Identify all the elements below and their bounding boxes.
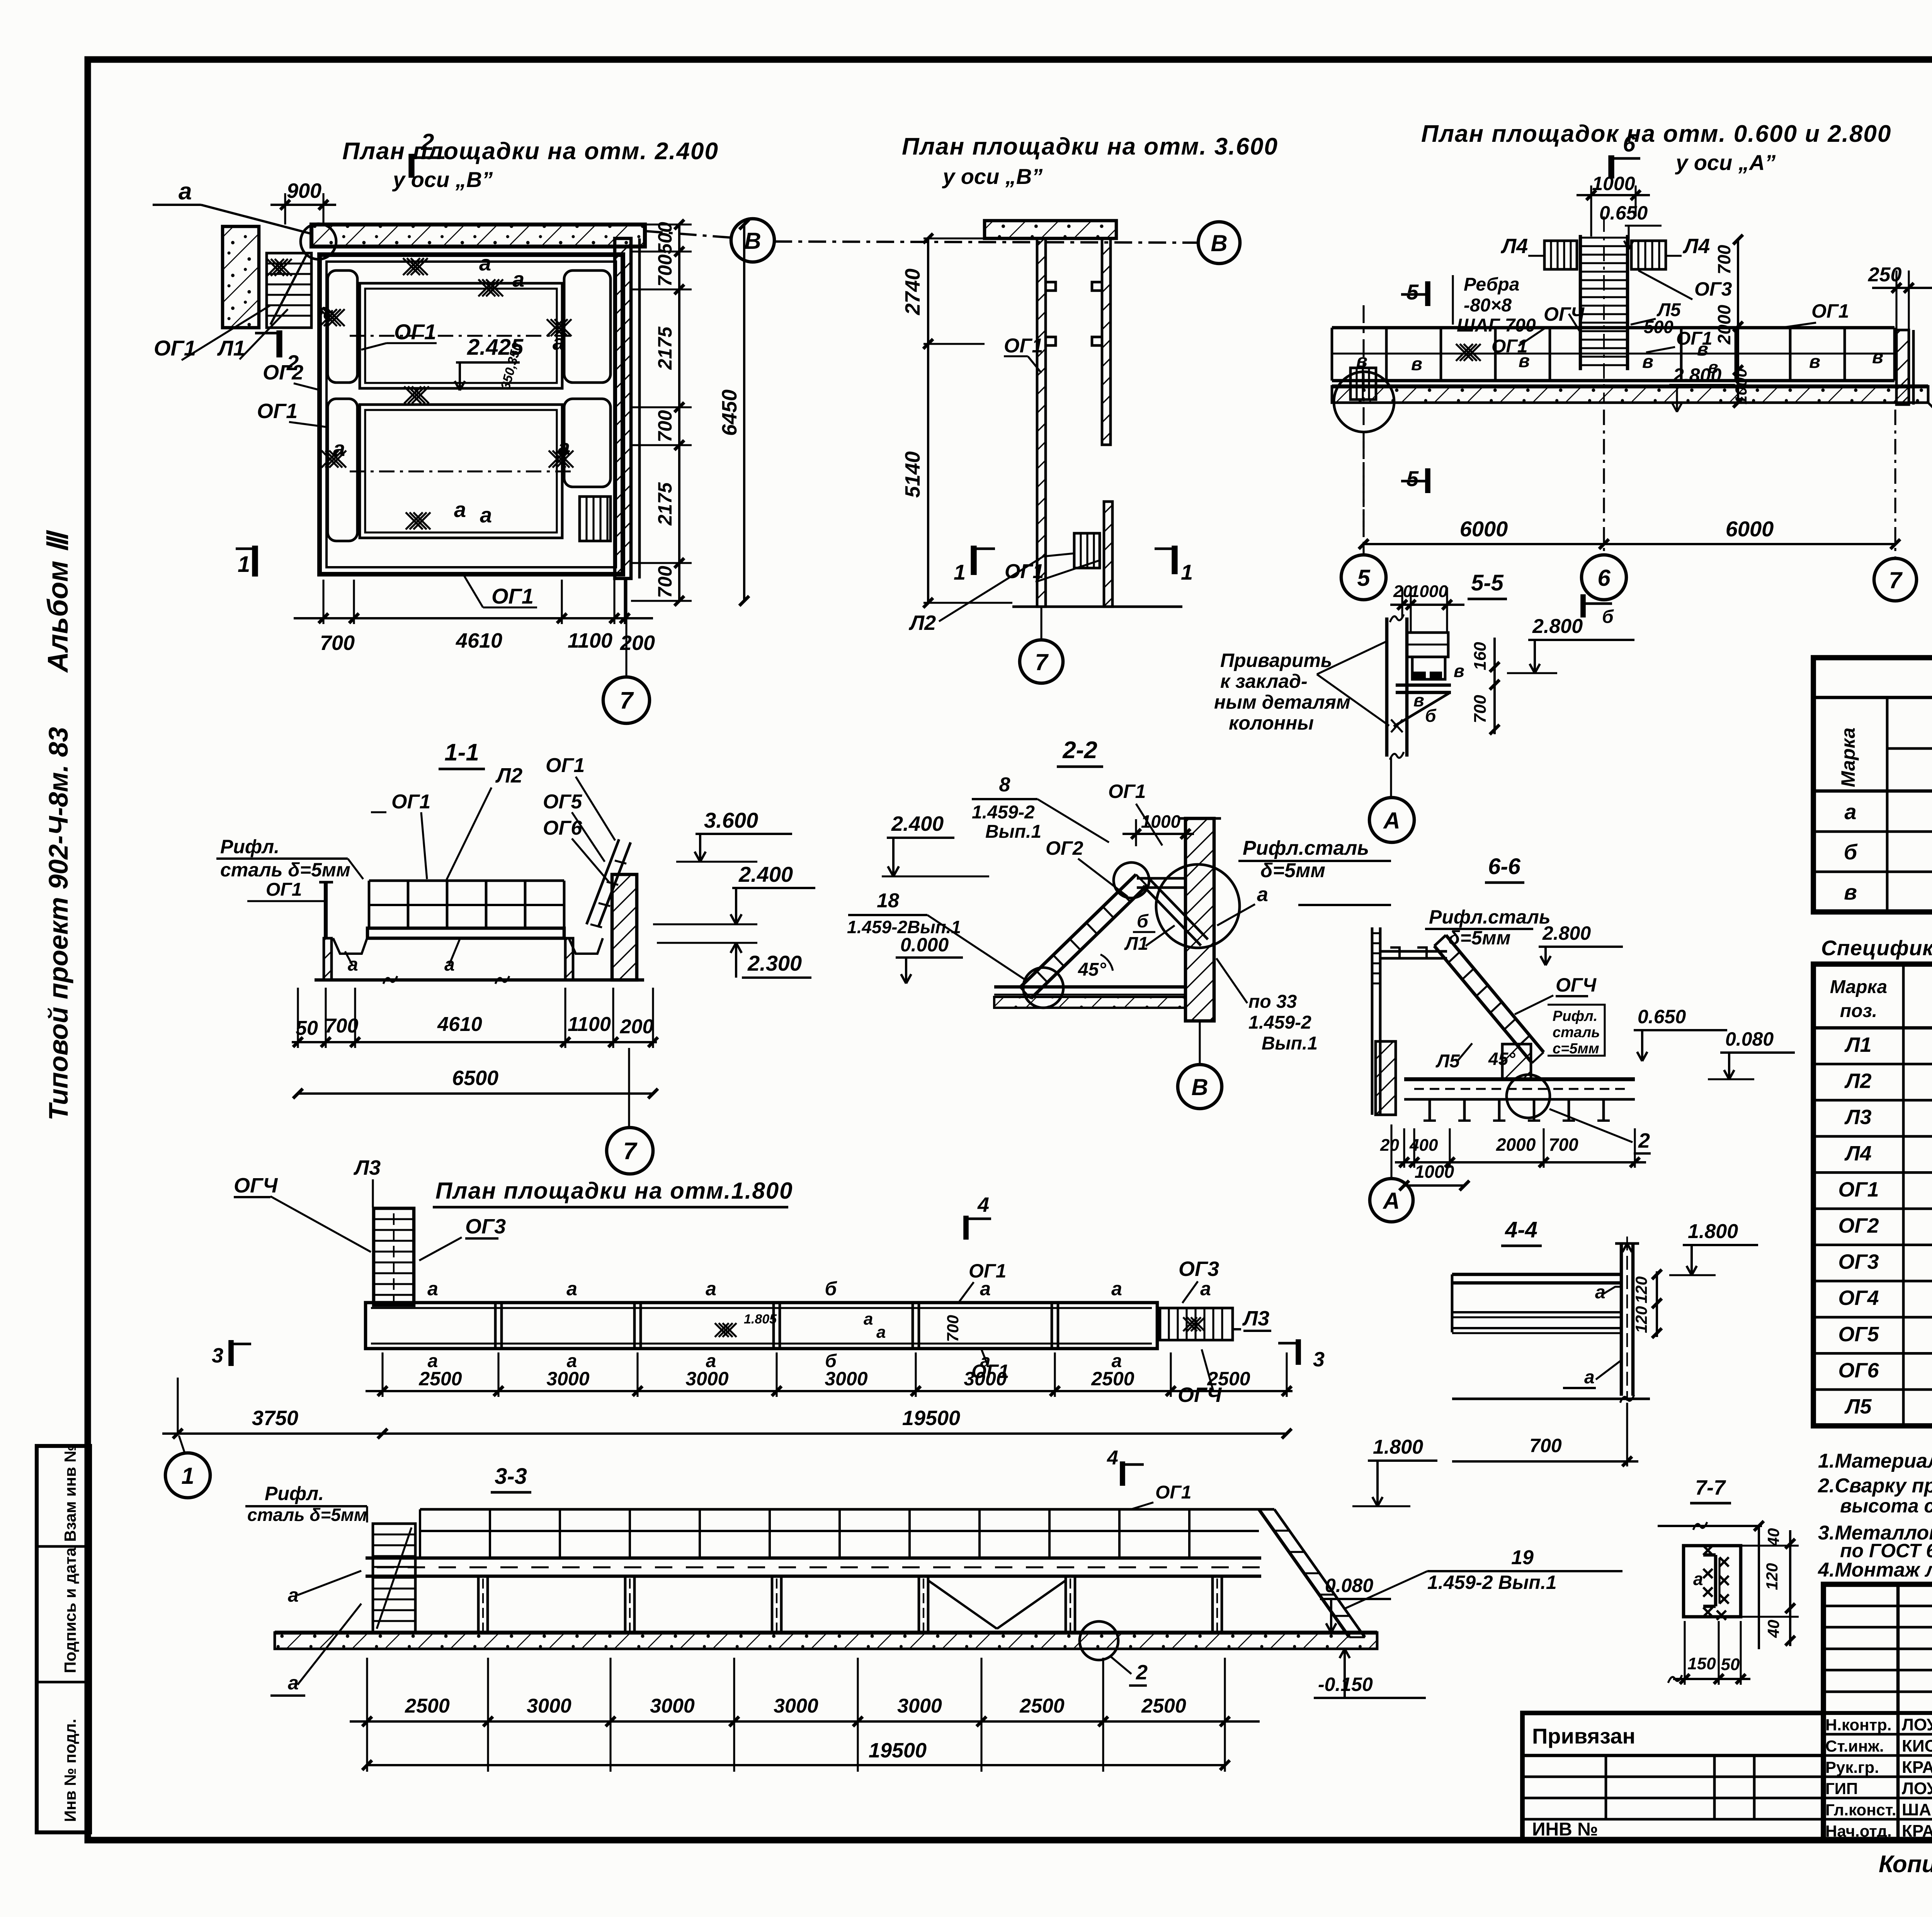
svg-text:План площадок на отм. 0.600 и: План площадок на отм. 0.600 и 2.800 <box>1421 121 1891 147</box>
svg-text:ОГ1: ОГ1 <box>1811 300 1849 322</box>
base line (plan 3.600) <box>1012 606 1182 608</box>
svg-text:2.300: 2.300 <box>747 951 802 975</box>
svg-text:1100: 1100 <box>568 629 612 652</box>
svg-text:Приварить: Приварить <box>1220 650 1332 671</box>
right wall hatched strip <box>615 238 631 578</box>
left wall (hatched) <box>1037 238 1046 607</box>
svg-text:а: а <box>558 435 570 459</box>
railing grid (1-1) <box>369 879 564 882</box>
table Ведомость элементов <box>1813 658 1932 912</box>
svg-text:б: б <box>1844 840 1858 864</box>
svg-text:2.400: 2.400 <box>738 862 793 886</box>
svg-text:Рифл.сталь: Рифл.сталь <box>1243 837 1369 859</box>
concrete wall band (top of plan) <box>311 225 645 247</box>
dims 120 120 (4-4) <box>1656 1271 1658 1337</box>
overall dimension 19500 (3-3) <box>367 1764 1225 1766</box>
overall vertical dimension 6450 <box>743 225 745 601</box>
svg-text:КРАСНОВА: КРАСНОВА <box>1902 1758 1932 1777</box>
svg-text:2.Сварку производить электрода: 2.Сварку производить электродами Э42 по … <box>1818 1475 1932 1497</box>
svg-text:в: в <box>1413 690 1424 710</box>
svg-text:Рифл.: Рифл. <box>1553 1008 1597 1024</box>
svg-text:а: а <box>1584 1367 1595 1388</box>
svg-text:2175: 2175 <box>654 482 676 526</box>
ladder left (3-3) <box>373 1524 415 1633</box>
left concrete wall block <box>223 226 259 328</box>
svg-text:в: в <box>1454 661 1464 681</box>
svg-text:700: 700 <box>1714 245 1734 274</box>
svg-text:а: а <box>864 1310 873 1328</box>
dimension 900 (top) <box>284 193 286 225</box>
svg-text:Нач.отд.: Нач.отд. <box>1825 1822 1892 1840</box>
posts (3-3) <box>477 1576 480 1633</box>
svg-text:а: а <box>333 436 345 461</box>
svg-text:Ребра: Ребра <box>1464 274 1519 295</box>
svg-text:по ГОСТ 695-77.: по ГОСТ 695-77. <box>1840 1540 1932 1561</box>
svg-text:ОГ1: ОГ1 <box>1005 560 1044 583</box>
svg-text:План площадки на отм. 3.600: План площадки на отм. 3.600 <box>902 133 1278 160</box>
dimension 1000 (2-2) <box>1135 819 1137 846</box>
svg-text:1: 1 <box>238 552 250 577</box>
svg-text:Л4: Л4 <box>1844 1142 1871 1165</box>
svg-text:ОГ6: ОГ6 <box>543 817 582 839</box>
detail circle on wall band <box>301 224 336 259</box>
dimension 1000 (tower top) <box>1590 185 1592 236</box>
svg-text:4: 4 <box>1107 1447 1118 1469</box>
right wall upper segment <box>1102 238 1111 445</box>
svg-text:4: 4 <box>977 1193 989 1216</box>
section mark 2 (left) <box>276 330 282 357</box>
platform band (3-3) <box>366 1556 1261 1560</box>
ladder Л4 left <box>1544 241 1577 269</box>
svg-text:ШАГ 700: ШАГ 700 <box>1457 315 1536 336</box>
svg-text:а: а <box>479 251 491 275</box>
axis circle 1 (plan 1.800) <box>179 1436 185 1453</box>
svg-text:Л1: Л1 <box>1124 934 1148 954</box>
axis circle 6 <box>1582 555 1626 600</box>
walkway strip (plan 1.800) <box>366 1303 1157 1349</box>
hatched corner piece bottom-right <box>580 497 611 541</box>
svg-text:Взам инв №: Взам инв № <box>61 1444 79 1542</box>
svg-text:а: а <box>1111 1278 1122 1300</box>
svg-text:1100: 1100 <box>568 1013 611 1036</box>
svg-text:колонны: колонны <box>1229 712 1314 734</box>
svg-text:Л5: Л5 <box>1844 1395 1872 1418</box>
svg-text:δ=5мм: δ=5мм <box>1260 859 1325 882</box>
svg-text:7: 7 <box>623 1138 638 1165</box>
svg-text:План площадки на отм.1.800: План площадки на отм.1.800 <box>435 1178 793 1204</box>
svg-text:а: а <box>1257 883 1268 906</box>
stair foot (6-6) <box>1502 1044 1531 1079</box>
platform (1-1) <box>367 928 564 938</box>
svg-text:5140: 5140 <box>901 451 924 498</box>
svg-text:ОГЧ: ОГЧ <box>1544 303 1585 325</box>
svg-text:1.800: 1.800 <box>1373 1436 1423 1458</box>
left post and brackets (1-1) <box>324 882 328 938</box>
svg-text:к заклад-: к заклад- <box>1220 670 1308 692</box>
svg-text:ОГ1: ОГ1 <box>546 754 585 777</box>
svg-text:19500: 19500 <box>902 1407 960 1430</box>
plate rectangle (7-7) <box>1684 1546 1741 1617</box>
svg-text:ОГ3: ОГ3 <box>1179 1257 1219 1281</box>
axis circle 7 (axis A plan) <box>1874 558 1917 601</box>
svg-text:-80×8: -80×8 <box>1464 295 1512 316</box>
platform top band (4-4) <box>1452 1273 1621 1276</box>
svg-text:План площадки на отм. 2.400: План площадки на отм. 2.400 <box>342 138 719 165</box>
svg-text:Копировал: Корецкая: Копировал: Корецкая <box>1879 1851 1932 1878</box>
svg-text:2: 2 <box>421 129 434 155</box>
brace (5-5) <box>1394 693 1449 726</box>
svg-text:3000: 3000 <box>774 1695 818 1717</box>
svg-text:700: 700 <box>1471 695 1490 723</box>
svg-text:400: 400 <box>1409 1136 1438 1155</box>
left vertical dimensions 2740 / 5140 <box>923 237 985 239</box>
svg-text:высота сварного шва hш=6мм.: высота сварного шва hш=6мм. <box>1840 1495 1932 1517</box>
svg-text:сталь δ=5мм: сталь δ=5мм <box>220 859 350 881</box>
svg-text:Типовой проект 902-Ч-8м. 83: Типовой проект 902-Ч-8м. 83 <box>43 727 73 1121</box>
svg-text:в: в <box>1844 880 1857 904</box>
svg-text:45°: 45° <box>1488 1049 1515 1069</box>
svg-text:Л3: Л3 <box>1844 1106 1871 1129</box>
svg-text:ОГ5: ОГ5 <box>543 791 582 813</box>
svg-text:а: а <box>876 1323 886 1342</box>
svg-text:3000: 3000 <box>825 1368 867 1390</box>
svg-text:3: 3 <box>1313 1348 1325 1371</box>
svg-text:0.080: 0.080 <box>1325 1575 1373 1596</box>
floor slab (2-2) <box>994 985 1185 989</box>
svg-text:3000: 3000 <box>546 1368 589 1390</box>
svg-text:2740: 2740 <box>901 269 924 315</box>
svg-text:а: а <box>480 503 492 527</box>
axis circle А (below 6-6) <box>1390 1124 1392 1178</box>
svg-text:700: 700 <box>654 254 676 287</box>
svg-text:ОГ1: ОГ1 <box>154 336 196 360</box>
svg-text:а: а <box>288 1672 299 1694</box>
svg-text:2000: 2000 <box>1714 304 1734 345</box>
svg-text:7: 7 <box>1889 567 1903 593</box>
svg-text:Ст.инж.: Ст.инж. <box>1825 1737 1884 1755</box>
svg-text:В: В <box>1191 1074 1208 1100</box>
svg-text:Рифл.сталь: Рифл.сталь <box>1429 906 1551 928</box>
svg-text:ОГ3: ОГ3 <box>1838 1250 1879 1274</box>
svg-text:КИСЕЛЕВА: КИСЕЛЕВА <box>1902 1737 1932 1755</box>
right wall lower segment <box>1104 502 1112 607</box>
svg-text:20: 20 <box>1380 1136 1399 1155</box>
svg-text:у оси „В”: у оси „В” <box>392 167 493 192</box>
left wall (6-6) <box>1371 927 1374 1115</box>
svg-text:120: 120 <box>1632 1306 1650 1333</box>
svg-text:а: а <box>1693 1569 1703 1589</box>
svg-text:700: 700 <box>325 1015 359 1037</box>
stair stringers (6-6) <box>1446 935 1544 1052</box>
weld X marks (7-7) <box>1703 1546 1713 1555</box>
svg-text:3-3: 3-3 <box>495 1464 527 1489</box>
svg-text:ЛОУЦКЕР: ЛОУЦКЕР <box>1902 1779 1932 1798</box>
svg-text:ШАПИРО: ШАПИРО <box>1902 1800 1932 1819</box>
svg-text:Л3: Л3 <box>1242 1307 1269 1330</box>
right column cells <box>564 270 611 383</box>
stair tower shaft <box>1579 235 1582 370</box>
table Спецификация элементов <box>1813 964 1932 1426</box>
svg-text:700: 700 <box>654 566 676 598</box>
dimension chain (3-3) <box>366 1658 368 1772</box>
deck lines (4-4) <box>1452 1311 1621 1313</box>
brace (2-2) <box>1143 886 1201 946</box>
svg-text:ОГ5: ОГ5 <box>1838 1323 1879 1346</box>
svg-text:Вып.1: Вып.1 <box>1262 1033 1318 1054</box>
svg-text:40: 40 <box>1764 1528 1782 1547</box>
left end detail circle and ladder <box>1350 368 1376 400</box>
svg-text:в: в <box>1642 352 1653 372</box>
svg-text:а: а <box>566 1278 577 1300</box>
svg-text:7-7: 7-7 <box>1695 1476 1726 1499</box>
svg-text:2500: 2500 <box>1019 1695 1065 1717</box>
svg-text:ОГ3: ОГ3 <box>1694 278 1732 300</box>
svg-text:Рук.гр.: Рук.гр. <box>1825 1758 1879 1776</box>
walkway strip along axis А <box>1332 326 1895 330</box>
svg-text:3750: 3750 <box>252 1407 298 1430</box>
svg-text:δ=5мм: δ=5мм <box>1448 927 1511 949</box>
stair Л1 (plan view) <box>267 253 311 328</box>
axis 7 line down to circle (below plan 2.400) <box>625 580 627 675</box>
ladder top box (5-5) <box>1407 633 1448 657</box>
svg-text:700: 700 <box>1549 1135 1578 1155</box>
svg-text:Подпись и дата: Подпись и дата <box>61 1547 79 1673</box>
svg-text:Вып.1: Вып.1 <box>985 822 1041 842</box>
bottom break line (4-4) <box>1452 1398 1650 1400</box>
svg-text:3000: 3000 <box>897 1695 942 1717</box>
svg-text:700: 700 <box>944 1315 962 1342</box>
svg-text:7: 7 <box>1035 649 1049 675</box>
axis dimension line 6000+6000 <box>1362 433 1364 556</box>
svg-text:ОГ1: ОГ1 <box>1492 336 1528 357</box>
title block outer <box>1823 1584 1932 1840</box>
grating sketch in panel (plan 1.800) <box>715 1323 729 1337</box>
svg-text:1.459-2: 1.459-2 <box>1248 1012 1311 1033</box>
svg-text:1.800: 1.800 <box>1688 1220 1738 1243</box>
svg-text:1000: 1000 <box>1141 811 1181 832</box>
svg-text:2175: 2175 <box>654 326 676 370</box>
svg-text:Л2: Л2 <box>495 764 522 787</box>
svg-text:А: А <box>1383 808 1400 833</box>
dimension chain 2500/3000x4/2500/2500 (plan 1.800) <box>381 1352 383 1397</box>
svg-text:2: 2 <box>1638 1129 1650 1152</box>
svg-text:50: 50 <box>296 1017 318 1039</box>
Привязан box <box>1522 1713 1823 1840</box>
svg-text:120: 120 <box>1763 1563 1781 1590</box>
svg-text:у оси „А”: у оси „А” <box>1675 150 1776 175</box>
svg-text:ОГ1: ОГ1 <box>266 879 302 900</box>
svg-text:3000: 3000 <box>685 1368 728 1390</box>
svg-text:ОГ4: ОГ4 <box>1838 1286 1879 1310</box>
svg-text:Марка: Марка <box>1837 728 1859 787</box>
svg-text:Рифл.: Рифл. <box>220 836 279 857</box>
svg-text:2500: 2500 <box>1207 1368 1250 1390</box>
svg-text:ОГЧ: ОГЧ <box>1556 974 1597 996</box>
ladder Л2 (plan) <box>1074 533 1100 568</box>
svg-text:а: а <box>288 1584 299 1606</box>
right dims 40 120 40 (7-7) <box>1758 1526 1760 1649</box>
grating mark on strip <box>1456 344 1473 361</box>
svg-text:ЛОУЦКЕР: ЛОУЦКЕР <box>1902 1715 1932 1734</box>
svg-text:а: а <box>980 1278 991 1300</box>
svg-text:19500: 19500 <box>869 1739 927 1762</box>
svg-text:5-5: 5-5 <box>1471 570 1504 595</box>
svg-text:0.650: 0.650 <box>1599 202 1648 224</box>
svg-text:700: 700 <box>1529 1435 1562 1456</box>
axis circle А (right of strip) <box>1928 403 1932 444</box>
ground band (3-3) <box>275 1633 1377 1649</box>
svg-text:1000: 1000 <box>1415 1162 1454 1182</box>
svg-text:Л1: Л1 <box>217 336 245 360</box>
grating marks (plan 2.400) <box>403 258 420 275</box>
axis circle В (below 2-2) <box>1199 1022 1201 1064</box>
right dimension chain 500/700/2175/700/2175/700 <box>631 223 692 225</box>
svg-text:8: 8 <box>999 774 1010 796</box>
svg-text:1-1: 1-1 <box>444 739 479 766</box>
svg-text:4610: 4610 <box>456 629 502 652</box>
left stair (plan 1.800) <box>374 1208 414 1305</box>
svg-text:Рифл.: Рифл. <box>265 1483 324 1504</box>
slab band (plan 3.600) <box>985 221 1116 238</box>
svg-text:б: б <box>1602 607 1614 627</box>
svg-text:120: 120 <box>1632 1276 1650 1303</box>
right stair (3-3) <box>1259 1509 1349 1637</box>
svg-text:6000: 6000 <box>1726 517 1774 541</box>
svg-text:б: б <box>825 1278 838 1300</box>
dimension chain 20 400 2000 700 (6-6) <box>1403 1128 1405 1168</box>
svg-text:а: а <box>553 330 565 354</box>
svg-text:5: 5 <box>1357 565 1371 591</box>
svg-text:6000: 6000 <box>1460 517 1508 541</box>
svg-text:Спецификация элементов к схеме: Спецификация элементов к схеме расположе… <box>1821 936 1932 960</box>
svg-text:В: В <box>744 228 761 254</box>
svg-text:20: 20 <box>1393 582 1412 601</box>
right end hatched column, dim 250 <box>1896 330 1909 405</box>
svg-text:3000: 3000 <box>650 1695 695 1717</box>
ladder Л4 right <box>1631 241 1666 269</box>
svg-text:ОГ1: ОГ1 <box>394 320 436 344</box>
svg-text:сталь δ=5мм: сталь δ=5мм <box>247 1505 367 1525</box>
svg-text:50: 50 <box>1721 1655 1740 1674</box>
svg-text:2.800: 2.800 <box>1542 922 1591 944</box>
svg-text:А: А <box>1382 1188 1400 1214</box>
svg-text:поз.: поз. <box>1840 1001 1877 1021</box>
svg-text:ОГ1: ОГ1 <box>1004 335 1043 357</box>
svg-text:2000: 2000 <box>1496 1135 1536 1155</box>
margin stamp cells (Взам инв № / Подпись и дата / Инв № подл) <box>37 1446 90 1832</box>
left column cells <box>328 270 357 383</box>
svg-text:а: а <box>1844 799 1856 824</box>
svg-text:б: б <box>1425 706 1437 726</box>
svg-text:ОГЧ: ОГЧ <box>234 1174 278 1197</box>
svg-text:ОГ2: ОГ2 <box>1838 1214 1879 1237</box>
svg-text:150: 150 <box>1687 1654 1716 1673</box>
svg-text:200: 200 <box>620 631 655 655</box>
svg-text:700: 700 <box>654 410 676 442</box>
ribs under platform (6-6) <box>1429 1099 1431 1121</box>
svg-text:в: в <box>1809 352 1820 372</box>
svg-text:ИНВ №: ИНВ № <box>1532 1819 1598 1840</box>
axis circle 5 <box>1341 555 1386 600</box>
svg-text:19: 19 <box>1511 1546 1534 1569</box>
svg-text:1.Материал металлоконструкций-: 1.Материал металлоконструкций-сталь ВСт3… <box>1818 1450 1932 1472</box>
top dim line (7-7) <box>1658 1525 1762 1527</box>
svg-text:1.459-2 Вып.1: 1.459-2 Вып.1 <box>1427 1572 1557 1593</box>
section marks 1-1 (plan 3.600) <box>971 546 976 575</box>
svg-text:2500: 2500 <box>1141 1695 1186 1717</box>
svg-text:900: 900 <box>287 179 321 202</box>
svg-text:5: 5 <box>1406 280 1419 304</box>
svg-text:в: в <box>1411 354 1422 374</box>
right stair (plan 1.800) <box>1160 1308 1233 1340</box>
bottom dimension chain 700/4610/1100/200 <box>322 580 324 624</box>
svg-text:500: 500 <box>654 222 676 254</box>
svg-text:а: а <box>1595 1282 1605 1303</box>
axis circle А (below 5-5) <box>1390 757 1392 798</box>
svg-text:ным деталям: ным деталям <box>1214 691 1350 713</box>
vertical dimension chain 700/2000/1000 (right of tower) <box>1737 240 1739 403</box>
svg-text:3.600: 3.600 <box>704 808 758 832</box>
svg-text:0.000: 0.000 <box>900 934 949 956</box>
floor slab band (axis А) <box>1332 386 1928 403</box>
svg-text:Привязан: Привязан <box>1532 1724 1635 1748</box>
svg-text:2500: 2500 <box>418 1368 462 1390</box>
axis circles В-В with dash line <box>731 219 774 262</box>
svg-text:Л3: Л3 <box>353 1156 381 1179</box>
top bracket (6-6) <box>1380 950 1447 953</box>
post (4-4) <box>1620 1243 1623 1396</box>
svg-text:2.800: 2.800 <box>1532 615 1583 638</box>
svg-text:2500: 2500 <box>1091 1368 1134 1390</box>
svg-text:Л4: Л4 <box>1682 235 1710 258</box>
svg-text:В: В <box>1211 230 1227 256</box>
hatched posts and wall (1-1) <box>324 938 332 980</box>
section mark 1 (bottom left) <box>252 546 258 577</box>
svg-text:4-4: 4-4 <box>1505 1217 1537 1242</box>
svg-text:ОГ2: ОГ2 <box>1046 837 1083 859</box>
svg-text:1000: 1000 <box>1410 582 1448 601</box>
dimension 1000 (6-6) <box>1404 1184 1464 1187</box>
svg-text:200: 200 <box>620 1015 654 1038</box>
svg-text:у оси „В”: у оси „В” <box>942 164 1043 189</box>
svg-text:0.080: 0.080 <box>1725 1028 1774 1050</box>
post (5-5) <box>1385 617 1389 757</box>
svg-text:6: 6 <box>1597 565 1611 591</box>
svg-text:ОГ1: ОГ1 <box>391 791 430 813</box>
svg-text:2.400: 2.400 <box>891 812 944 835</box>
tank cell band 1 <box>360 283 562 388</box>
svg-text:700: 700 <box>320 631 355 655</box>
detail circles (2-2) <box>1156 864 1240 948</box>
svg-text:а: а <box>179 178 192 205</box>
svg-text:7: 7 <box>620 687 634 714</box>
svg-text:ОГ1: ОГ1 <box>492 584 534 608</box>
svg-text:1: 1 <box>954 560 966 584</box>
svg-text:а: а <box>427 1278 438 1300</box>
svg-text:а: а <box>512 267 524 291</box>
svg-text:по 33: по 33 <box>1248 992 1297 1012</box>
svg-text:160: 160 <box>1471 642 1490 670</box>
svg-text:Н.контр.: Н.контр. <box>1825 1716 1891 1734</box>
svg-text:а: а <box>1200 1278 1211 1300</box>
svg-text:ОГ1: ОГ1 <box>1676 328 1713 349</box>
svg-text:КРАСАВИН: КРАСАВИН <box>1902 1822 1932 1840</box>
svg-text:3000: 3000 <box>527 1695 571 1717</box>
svg-text:1000: 1000 <box>1732 368 1750 404</box>
axis 7 circle (below plan 3.600) <box>1040 607 1042 640</box>
svg-text:Марка: Марка <box>1830 977 1887 997</box>
vertical dims 160 700 (5-5) <box>1493 638 1496 734</box>
